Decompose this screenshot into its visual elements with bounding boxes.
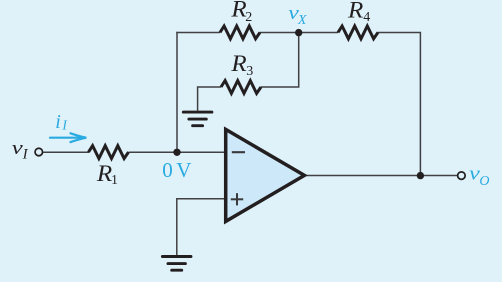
wire R3 to ground stem (198, 87, 221, 111)
op-amp plus pin symbol (231, 193, 243, 205)
wire feedback vertical (node 0V up to top rail) (176, 32, 178, 152)
node vX junction dot (295, 29, 302, 36)
svg-text:R: R (230, 52, 247, 77)
ground (under R3) (183, 112, 212, 126)
resistor R3 (221, 81, 261, 94)
svg-text:I: I (22, 147, 29, 163)
svg-text:i: i (55, 111, 61, 133)
op-amp minus pin symbol (232, 151, 245, 153)
op-amp U1 (226, 129, 305, 221)
node 0V junction dot (173, 149, 180, 156)
svg-text:R: R (347, 0, 364, 23)
current arrow iI (50, 133, 86, 142)
svg-text:v: v (12, 137, 23, 159)
resistor R4 (338, 26, 378, 39)
resistor R2 (220, 26, 260, 39)
wire op-amp output to vO (304, 175, 458, 177)
wire R1 to op-amp inverting input (129, 151, 225, 153)
wire top rail to R2 (176, 32, 220, 34)
terminal vO open circle (458, 172, 466, 180)
terminal vI open circle (35, 148, 43, 156)
wire R4 to output corner and down (378, 33, 420, 176)
svg-text:X: X (297, 13, 307, 28)
wire R2 to R4 through node vX (260, 32, 338, 34)
svg-text:4: 4 (363, 10, 370, 25)
node output junction dot (417, 172, 424, 179)
svg-text:0: 0 (162, 158, 173, 182)
svg-text:2: 2 (245, 10, 252, 25)
wire op-amp noninverting input to ground (177, 199, 224, 255)
svg-text:V: V (176, 158, 191, 182)
svg-text:1: 1 (111, 173, 118, 188)
svg-text:3: 3 (246, 64, 253, 79)
ground (noninverting input) (162, 257, 191, 271)
resistor R1 (89, 146, 129, 159)
wire node vX down to R3 (261, 33, 299, 88)
wire input vI to R1 (42, 151, 89, 153)
svg-text:O: O (479, 174, 489, 189)
